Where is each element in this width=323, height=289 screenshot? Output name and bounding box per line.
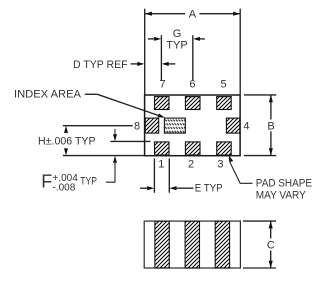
dim C line [270,222,272,239]
dim G extension line right (pad 6 center) [192,35,194,80]
pad 5 [217,97,232,110]
pad 7 [155,97,170,110]
dim G left arrow [154,37,161,41]
dim G right arrow [193,37,200,41]
pad 2 [185,142,200,155]
pad 3 [217,142,232,155]
dim H down arrow [64,148,68,155]
svg-text:A: A [189,8,197,20]
svg-text:F: F [41,171,52,191]
svg-text:D TYP REF: D TYP REF [73,59,128,71]
dim D left arrow [137,62,144,66]
svg-text:1: 1 [158,158,164,170]
dim E left tail [140,187,149,189]
pin 8 leader line / dim H top extension [63,125,133,127]
svg-text:PAD SHAPE: PAD SHAPE [256,178,312,190]
dim F down arrow with tail [114,129,116,136]
dim C extension top [243,220,276,222]
svg-text:INDEX AREA: INDEX AREA [14,89,82,101]
index area [164,118,185,133]
dim B top arrow [269,95,273,102]
side view body outline [144,221,240,268]
svg-text:5: 5 [221,79,227,91]
svg-text:G: G [173,28,182,40]
dim D right tail [168,63,176,65]
svg-text:2: 2 [188,158,194,170]
svg-text:C: C [267,240,275,252]
dim B line [270,95,272,119]
svg-text:TYP: TYP [166,40,187,52]
dim B extension bottom [244,155,276,157]
dim G extension line left (pad 7 center) [160,35,162,80]
dim A left arrow [145,12,152,16]
side view pad bar 3 [215,221,229,268]
svg-text:4: 4 [243,120,249,132]
dim E extension right (pad 1 right edge) [168,159,170,193]
svg-text:B: B [267,120,274,132]
dim H bottom extension (package bottom edge extended) [63,155,145,157]
dim H up arrow [64,126,68,133]
svg-text:MAY VARY: MAY VARY [256,189,307,201]
svg-text:E TYP: E TYP [195,183,223,195]
pad 4 [226,118,240,133]
side view pad bar 2 [185,221,199,268]
dim A extension line left [144,9,146,95]
dim C bottom arrow [269,261,273,268]
pad shape leader arrow [229,155,234,162]
dim A right arrow [233,12,240,16]
dim A extension line right [239,9,241,95]
svg-text:H±.006 TYP: H±.006 TYP [38,135,96,147]
dim C extension bottom [243,267,276,269]
dim E right arrow [170,186,177,190]
dim G left tail [148,38,156,40]
pad 1 [155,142,170,155]
side view pad bar 1 [155,221,169,268]
dim B extension top [244,94,276,96]
dim E right tail [175,187,193,189]
index area leader arrow [158,113,165,117]
svg-text:8: 8 [134,121,140,133]
pad 8 [145,118,159,133]
index area leader [85,93,98,95]
pad 6 [185,97,200,110]
dim A line [145,13,185,15]
dim E extension left (pad 1 left edge) [153,159,155,193]
dim C top arrow [269,221,273,228]
dim B bottom arrow [269,148,273,155]
svg-text:TYP: TYP [80,176,97,188]
svg-text:3: 3 [217,158,223,170]
svg-text:7: 7 [160,79,166,91]
package body outline (top view) [145,95,241,156]
dim F extension (pad 1 top edge extended) [110,140,150,142]
pad shape leader [230,162,253,183]
dim D right arrow [162,62,169,66]
svg-text:-.008: -.008 [53,182,76,193]
dim G right tail [199,38,205,40]
dim F up arrow with elbow leader [113,156,117,163]
dim D leader tail [131,63,139,65]
dim E left arrow [147,186,154,190]
